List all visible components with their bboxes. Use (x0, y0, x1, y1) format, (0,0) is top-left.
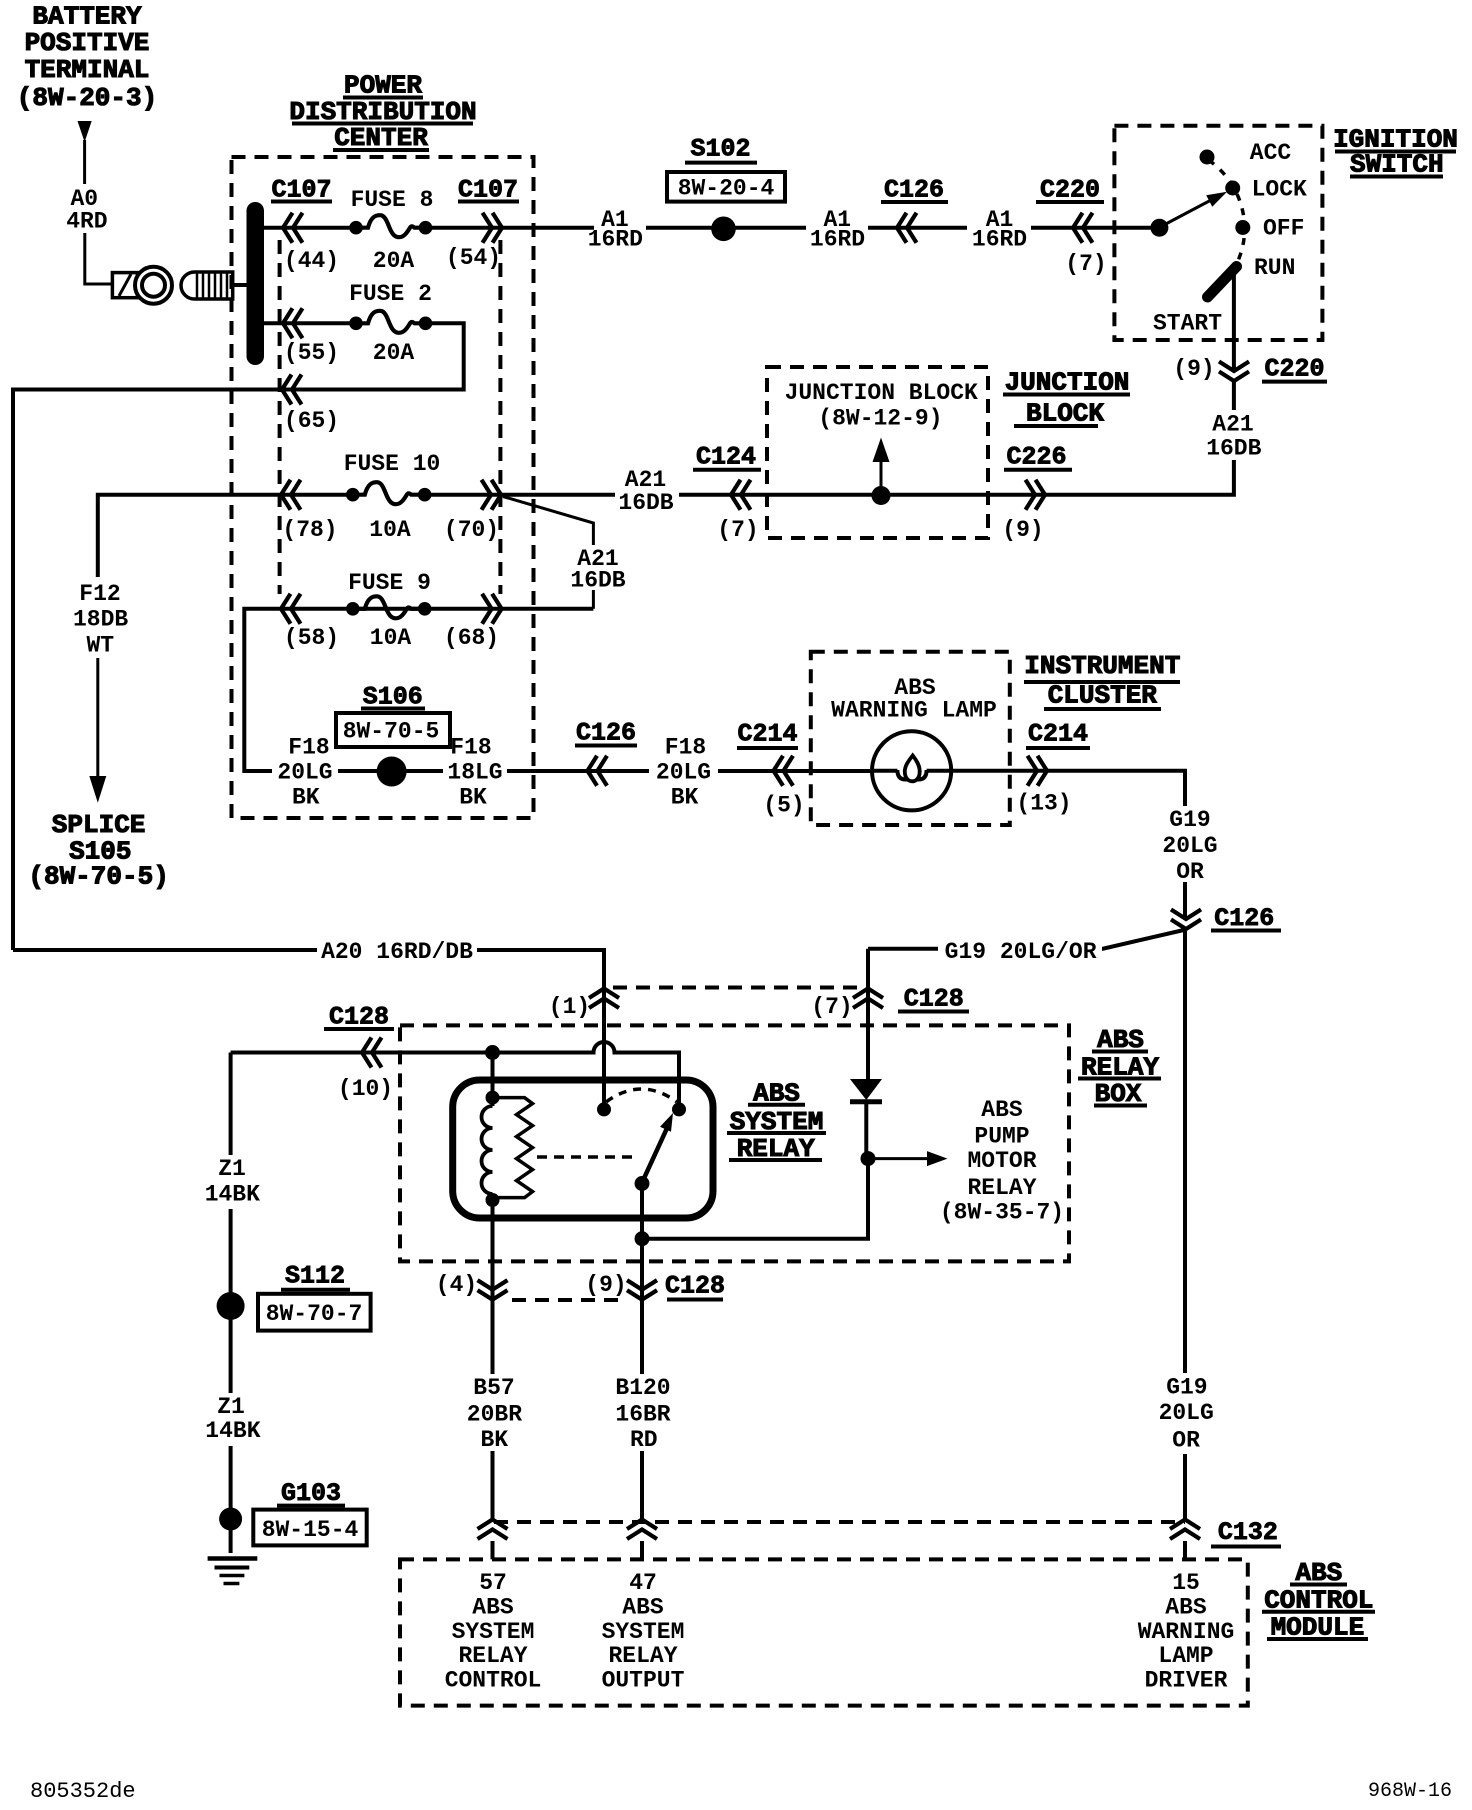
svg-text:(44): (44) (284, 248, 339, 274)
svg-text:RD: RD (630, 1427, 658, 1453)
svg-text:16RD: 16RD (588, 227, 643, 253)
svg-text:10A: 10A (369, 517, 411, 543)
ground G103 dot (219, 1508, 242, 1531)
svg-text:20A: 20A (373, 248, 415, 274)
svg-text:TERMINAL: TERMINAL (25, 55, 150, 85)
fuse 2 element (349, 311, 432, 333)
svg-text:FUSE 8: FUSE 8 (351, 187, 434, 213)
splice S106 dot (377, 757, 407, 787)
svg-text:G19: G19 (1166, 1374, 1207, 1400)
wire G19 20LG/OR branch (868, 930, 1186, 949)
bus bar (247, 202, 265, 365)
wire label A21 16DB below C220 (1204, 410, 1264, 462)
svg-text:FUSE 9: FUSE 9 (348, 570, 431, 596)
svg-text:START: START (1153, 311, 1222, 337)
wire relay common down to C132 row (640, 1184, 644, 1520)
relay mechanical dashed link (537, 1155, 638, 1159)
wire label A1 16RD second (806, 207, 868, 253)
ignition switch pivot dot (1150, 219, 1168, 237)
fuse 9 pin labels (284, 625, 499, 651)
wire label F18 18LG BK right of S106 (443, 735, 507, 811)
svg-text:(4): (4) (436, 1272, 477, 1298)
RUN contact blade (1208, 267, 1237, 298)
svg-text:RUN: RUN (1254, 255, 1295, 281)
abs system relay heading (727, 1079, 826, 1164)
LOCK contact dot (1225, 181, 1240, 196)
svg-text:16BR: 16BR (615, 1402, 670, 1428)
svg-text:BK: BK (459, 785, 487, 811)
wire B57 column (491, 1200, 495, 1519)
svg-text:(7): (7) (811, 994, 852, 1020)
svg-text:OR: OR (1172, 1427, 1200, 1453)
svg-text:20LG: 20LG (1162, 833, 1217, 859)
svg-text:FUSE 10: FUSE 10 (344, 451, 441, 477)
wire label A1 16RD first (588, 207, 646, 253)
instrument cluster dashed box (811, 652, 1010, 825)
svg-text:ABS: ABS (622, 1594, 664, 1620)
svg-text:C214: C214 (1028, 720, 1088, 749)
wire F18 row right of S106 (406, 769, 872, 773)
svg-text:DRIVER: DRIVER (1145, 1668, 1228, 1694)
ignition switch wiper arrow (1161, 192, 1227, 227)
connector C128 heading top (898, 984, 969, 1013)
wire label B120 16BR RD (610, 1374, 676, 1453)
svg-text:WARNING: WARNING (1138, 1619, 1235, 1645)
svg-text:16DB: 16DB (618, 490, 673, 516)
battery ring terminal (112, 267, 172, 304)
svg-text:SYSTEM: SYSTEM (602, 1619, 685, 1645)
svg-text:(8W-70-5): (8W-70-5) (28, 862, 168, 892)
wire A0 (85, 233, 113, 284)
wire label G19 20LG OR lower (1156, 1373, 1216, 1454)
svg-text:BK: BK (292, 785, 320, 811)
svg-text:968W-16: 968W-16 (1368, 1780, 1452, 1803)
svg-text:(5): (5) (763, 793, 804, 819)
svg-text:C132: C132 (1218, 1518, 1278, 1547)
svg-text:(1): (1) (549, 994, 590, 1020)
svg-text:LAMP: LAMP (1158, 1643, 1213, 1669)
module pin 47 label (602, 1570, 685, 1694)
svg-text:JUNCTION BLOCK: JUNCTION BLOCK (785, 380, 978, 406)
svg-text:(65): (65) (284, 408, 339, 434)
connector C132 chevrons (47) (627, 1520, 657, 1540)
svg-text:G19 20LG/OR: G19 20LG/OR (945, 939, 1097, 965)
svg-text:805352de: 805352de (30, 1779, 136, 1804)
svg-text:(9): (9) (585, 1272, 626, 1298)
fuse 8 element (349, 215, 432, 237)
svg-text:16DB: 16DB (570, 568, 625, 594)
junction block splice dot (872, 486, 891, 505)
connector C220 heading (9) (1262, 355, 1327, 384)
connector C214 chevrons (5) (774, 756, 794, 786)
ground G103 heading (277, 1479, 345, 1508)
junction dot on C128 (10) wire (485, 1045, 500, 1060)
svg-text:Z1: Z1 (217, 1394, 245, 1420)
svg-text:20LG: 20LG (1159, 1400, 1214, 1426)
wire label G19 20LG/OR (938, 938, 1102, 965)
svg-text:16RD: 16RD (972, 227, 1027, 253)
connector C132 dashed link (494, 1520, 1185, 1524)
svg-text:ABS: ABS (472, 1594, 514, 1620)
svg-text:(8W-20-3): (8W-20-3) (17, 83, 157, 113)
svg-text:OUTPUT: OUTPUT (602, 1668, 685, 1694)
connector C128 heading (10) (324, 1003, 394, 1032)
svg-text:8W-15-4: 8W-15-4 (262, 1517, 359, 1543)
wire label Z1 14BK lower (201, 1393, 263, 1446)
svg-text:OR: OR (1176, 859, 1204, 885)
connector C107 chevrons (78) (281, 480, 301, 510)
svg-text:CONTROL: CONTROL (445, 1668, 542, 1694)
connector C107 chevrons (70) (482, 480, 502, 510)
abs pump motor relay label (940, 1097, 1064, 1226)
svg-text:WARNING LAMP: WARNING LAMP (831, 698, 997, 724)
battery bolt (181, 272, 249, 299)
instrument cluster heading (1024, 651, 1180, 711)
module pin 15 label (1138, 1570, 1235, 1694)
connector C128 heading bottom (665, 1271, 725, 1300)
svg-text:18LG: 18LG (447, 759, 502, 785)
splice S112 box 8W-70-7 (258, 1294, 371, 1331)
wire from lamp to C214 (13) and down (951, 771, 1185, 1519)
svg-text:ABS: ABS (981, 1097, 1023, 1123)
svg-text:14BK: 14BK (205, 1182, 260, 1208)
svg-text:F18: F18 (450, 735, 491, 761)
svg-text:A20 16RD/DB: A20 16RD/DB (321, 939, 473, 965)
ground G103 box 8W-15-4 (253, 1510, 366, 1546)
connector C107 chevrons (65) (282, 375, 302, 405)
splice S102 heading (685, 135, 757, 164)
splice S105 arrow down (89, 658, 106, 803)
abs relay box heading (1078, 1025, 1161, 1109)
splice S112 dot (217, 1292, 245, 1320)
wire stubs into module (493, 1541, 1186, 1559)
wire label A21 16DB right of fuse 10 (615, 466, 679, 516)
svg-text:47: 47 (629, 1570, 657, 1596)
connector C107 heading right (458, 176, 519, 205)
svg-text:(8W-12-9): (8W-12-9) (818, 406, 942, 432)
svg-text:(55): (55) (284, 340, 339, 366)
jumper diagonal fuse10 to fuse9 (503, 497, 593, 609)
connector C132 chevrons (15) (1170, 1520, 1200, 1540)
power distribution center dashed box (232, 157, 534, 818)
svg-text:8W-70-5: 8W-70-5 (343, 719, 440, 745)
svg-text:PUMP: PUMP (974, 1124, 1029, 1150)
connector C128 chevrons (10) (362, 1038, 382, 1068)
svg-text:(9): (9) (1173, 356, 1214, 382)
wire label F18 20LG BK left of S106 (272, 735, 338, 811)
svg-text:Z1: Z1 (218, 1156, 246, 1182)
svg-text:20BR: 20BR (467, 1402, 522, 1428)
svg-text:OFF: OFF (1263, 216, 1304, 242)
svg-text:MOTOR: MOTOR (967, 1148, 1036, 1174)
relay switch blade with arrowhead (642, 1113, 673, 1184)
abs warning lamp bulb (872, 731, 951, 810)
connector C126 heading (G19) (1211, 904, 1281, 933)
wire bus to fuse 8 (264, 226, 356, 230)
svg-text:RELAY: RELAY (458, 1643, 527, 1669)
wire label A21 16DB jumper (570, 545, 625, 594)
PDC inner fuse-block dashed verticals (278, 240, 282, 594)
svg-text:F18: F18 (665, 735, 706, 761)
relay switch contacts (597, 1102, 611, 1116)
svg-text:RELAY: RELAY (608, 1643, 677, 1669)
ACC contact dot (1200, 150, 1215, 165)
splice S105 label (28, 810, 168, 891)
svg-text:(68): (68) (444, 625, 499, 651)
wire label F18 20LG BK right of C126 (649, 735, 718, 811)
svg-text:FUSE 2: FUSE 2 (349, 281, 432, 307)
OFF contact dot (1235, 220, 1250, 235)
ignition switch position arc (dashed) (1209, 160, 1245, 263)
svg-text:10A: 10A (370, 625, 412, 651)
svg-text:(10): (10) (338, 1076, 393, 1102)
svg-text:C220: C220 (1264, 355, 1324, 384)
svg-text:4RD: 4RD (66, 209, 107, 235)
connector C126 chevrons (G19) (1183, 917, 1189, 928)
wire fuse 10 left to F12 corner (98, 495, 353, 577)
relay switch dashed arc (606, 1089, 677, 1102)
battery positive terminal label (17, 2, 157, 114)
relay coil resistor zigzag (493, 1098, 533, 1198)
connector C107 heading left (271, 176, 332, 205)
abs control module dashed box (400, 1559, 1248, 1705)
svg-text:ACC: ACC (1250, 140, 1292, 166)
diode (850, 1079, 882, 1152)
svg-text:(13): (13) (1016, 791, 1071, 817)
svg-text:C128: C128 (904, 984, 964, 1013)
splice S106 heading (361, 682, 425, 711)
wire fuse 9 row (244, 609, 593, 771)
splice S112 heading (281, 1261, 350, 1290)
connector C128 chevrons (4) (478, 1280, 508, 1300)
wire Z1 column (229, 1053, 233, 1554)
svg-text:(7): (7) (717, 517, 758, 543)
connector C214 chevrons (13) (1028, 756, 1048, 786)
fuse 2 pin labels (284, 340, 415, 366)
svg-text:WT: WT (86, 632, 114, 658)
junction block heading (1003, 367, 1130, 428)
svg-text:C124: C124 (696, 443, 756, 472)
wire bus to fuse 2 (264, 321, 356, 325)
arrow down from battery label (78, 121, 92, 184)
wire label Z1 14BK upper (201, 1155, 263, 1209)
ignition position labels (1153, 140, 1307, 337)
arrow to abs pump motor relay (875, 1151, 948, 1166)
wire C128 (10) row with bump over (1) wire (231, 1042, 679, 1109)
svg-text:BK: BK (671, 785, 699, 811)
connector C226 heading (1004, 443, 1072, 472)
svg-text:ABS: ABS (1165, 1594, 1207, 1620)
svg-text:(8W-35-7): (8W-35-7) (940, 1200, 1064, 1226)
svg-text:LOCK: LOCK (1252, 177, 1307, 203)
module pin 57 label (445, 1570, 542, 1694)
connector C124 chevrons (7) (731, 480, 751, 510)
svg-text:A21: A21 (1212, 412, 1253, 438)
connector C128 chevrons (7) (853, 989, 883, 1009)
svg-text:B120: B120 (615, 1375, 670, 1401)
svg-text:(54): (54) (446, 245, 501, 271)
fuse 10 element (346, 482, 432, 504)
svg-text:CLUSTER: CLUSTER (1048, 681, 1158, 711)
connector C124 heading (693, 443, 761, 472)
svg-text:20LG: 20LG (656, 759, 711, 785)
connector C126 heading (A1) (881, 176, 948, 205)
power distribution center heading (289, 71, 476, 153)
wire label A1 16RD third (967, 207, 1031, 253)
svg-text:(9): (9) (1002, 517, 1043, 543)
svg-text:F12: F12 (79, 581, 120, 607)
splice S102 box 8W-20-4 (667, 172, 785, 202)
abs relay box dashed outline (400, 1025, 1069, 1261)
svg-text:F18: F18 (288, 735, 329, 761)
connector C220 heading (A1) (1036, 176, 1104, 205)
connector C214 heading (5) (737, 720, 798, 749)
relay coil (482, 1091, 500, 1207)
wire A21 row (425, 268, 1234, 495)
connector C128 chevrons (1) (589, 989, 619, 1009)
fuse 10 pin labels (282, 517, 499, 543)
connector C107 chevrons (58) (281, 594, 301, 624)
connector C132 heading (1211, 1518, 1281, 1547)
wire G19 down to diode (866, 949, 870, 1079)
connector C126 heading (F18) (575, 719, 637, 748)
wire A20 row (13, 950, 604, 1109)
connector C126 chevrons (A1) (897, 213, 917, 243)
wire C128 (10) branch down to coil (491, 1053, 495, 1098)
svg-text:S112: S112 (285, 1261, 345, 1290)
svg-text:C214: C214 (737, 720, 797, 749)
svg-text:16RD: 16RD (810, 227, 865, 253)
svg-text:20A: 20A (373, 340, 415, 366)
splice F12 wire label (73, 581, 128, 658)
wire label G19 20LG OR upper (1158, 806, 1218, 885)
abs system relay rounded box (453, 1080, 713, 1218)
ground symbol (208, 1559, 258, 1584)
svg-text:14BK: 14BK (205, 1418, 260, 1444)
wire label B57 20BR BK (464, 1374, 524, 1453)
ignition switch heading (1333, 125, 1458, 180)
connector C220 chevrons (7) (1073, 213, 1093, 243)
connector C107 chevrons (44) (283, 213, 303, 243)
svg-text:16DB: 16DB (1206, 436, 1261, 462)
connector C226 chevrons (9) (1026, 480, 1046, 510)
connector C107 chevrons (55) (283, 308, 303, 338)
wire fuse 2 output loop to (65) (13, 323, 464, 950)
abs control module heading (1262, 1558, 1375, 1642)
junction block inner label (785, 380, 978, 432)
svg-text:C226: C226 (1006, 443, 1066, 472)
wire A1 row (426, 226, 1160, 230)
svg-text:SPLICE: SPLICE (52, 810, 146, 840)
svg-text:B57: B57 (473, 1375, 514, 1401)
fuse 9 element (346, 596, 432, 618)
svg-text:8W-70-7: 8W-70-7 (266, 1301, 363, 1327)
connector C214 heading (13) (1026, 720, 1090, 749)
relay common contact dot (635, 1176, 650, 1191)
svg-text:INSTRUMENT: INSTRUMENT (1024, 651, 1180, 681)
svg-text:18DB: 18DB (73, 607, 128, 633)
svg-text:(58): (58) (284, 625, 339, 651)
junction dot on (9) wire (635, 1231, 650, 1246)
junction block dashed box (767, 367, 988, 538)
connector C220 chevrons (9) (1231, 372, 1237, 381)
splice S106 box 8W-70-5 (336, 713, 450, 747)
svg-text:G19: G19 (1169, 807, 1210, 833)
wire label A20 16RD/DB (317, 938, 477, 965)
svg-text:15: 15 (1172, 1570, 1200, 1596)
svg-text:8W-20-4: 8W-20-4 (678, 176, 775, 202)
splice S102 dot (711, 217, 736, 242)
connector C132 chevrons (57) (478, 1520, 508, 1540)
svg-text:BATTERY: BATTERY (32, 2, 142, 32)
svg-text:POSITIVE: POSITIVE (25, 28, 150, 58)
svg-text:57: 57 (479, 1570, 507, 1596)
junction dot diode branch (861, 1151, 876, 1166)
junction block arrow up (873, 438, 890, 496)
svg-text:C128: C128 (665, 1271, 725, 1300)
svg-text:C126: C126 (576, 719, 636, 748)
svg-text:SYSTEM: SYSTEM (452, 1619, 535, 1645)
abs warning lamp label (831, 675, 997, 724)
connector C107 chevrons (54) (483, 213, 503, 243)
svg-text:20LG: 20LG (277, 759, 332, 785)
connector C128 chevrons (9) (627, 1280, 657, 1300)
svg-text:(70): (70) (444, 517, 499, 543)
wire A0 label (66, 186, 107, 235)
ignition switch dashed box (1114, 126, 1322, 340)
svg-text:BK: BK (480, 1427, 508, 1453)
svg-text:(7): (7) (1065, 251, 1106, 277)
svg-text:S102: S102 (690, 135, 750, 164)
svg-text:RELAY: RELAY (967, 1175, 1036, 1201)
connector C126 chevrons (F18) (588, 756, 608, 786)
fuse 8 pin labels (284, 245, 501, 274)
svg-text:(78): (78) (282, 517, 337, 543)
connector C128 dashed link (4)-(9) (512, 1298, 621, 1302)
connector C128 dashed link (1)-(7) (613, 986, 859, 990)
connector C107 chevrons (68) (482, 594, 502, 624)
wire diode to pump motor junction and down to (9) wire (642, 1152, 868, 1239)
